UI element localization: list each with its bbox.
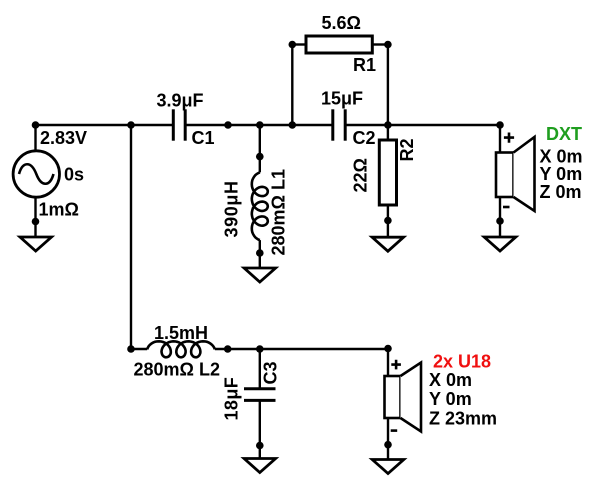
- svg-text:3.9μF: 3.9μF: [157, 91, 204, 111]
- wire L1 bottom lead: [259, 240, 261, 268]
- speaker U18 plus sign: [391, 360, 401, 370]
- svg-text:X 0m: X 0m: [429, 370, 472, 390]
- wire R2 top lead: [387, 125, 389, 140]
- wire bottom rail: L2 to U18: [215, 348, 388, 350]
- speaker U18 body: [385, 376, 401, 418]
- svg-text:1.5mH: 1.5mH: [154, 323, 208, 343]
- ground below C3: [244, 459, 276, 473]
- inductor L1 coil: [252, 172, 268, 240]
- wire R1 left lead: [292, 43, 306, 45]
- resistor R1 body: [306, 36, 372, 53]
- ground below L1: [244, 268, 276, 282]
- svg-text:15μF: 15μF: [321, 89, 363, 109]
- junction dot R1 left: [289, 121, 297, 129]
- ground below U18: [372, 460, 404, 474]
- junction dot left corner: [127, 121, 135, 129]
- voltage source V1 sine wave: [19, 164, 54, 184]
- junction dot bottom-left corner: [127, 345, 135, 353]
- speaker DXT body: [496, 153, 514, 198]
- wire L1 top lead: [259, 125, 261, 172]
- wire top rail: C2 to DXT: [347, 124, 501, 126]
- wire C3 top lead: [259, 349, 261, 389]
- speaker DXT minus sign: [503, 206, 510, 209]
- svg-text:2x U18: 2x U18: [433, 351, 491, 371]
- svg-text:1mΩ: 1mΩ: [39, 200, 79, 220]
- svg-text:Z 23mm: Z 23mm: [429, 408, 497, 428]
- ground below source: [20, 237, 52, 251]
- svg-text:C2: C2: [353, 128, 376, 148]
- junction dot U18 bottom: [384, 441, 392, 449]
- junction dot node after C1: [224, 121, 232, 129]
- junction dot R2 bottom: [384, 217, 392, 225]
- svg-text:Y 0m: Y 0m: [429, 389, 472, 409]
- svg-text:0s: 0s: [64, 164, 84, 184]
- svg-text:5.6Ω: 5.6Ω: [322, 13, 361, 33]
- junction dot R1 left top: [289, 41, 297, 49]
- wire R2 bottom lead: [387, 205, 389, 237]
- capacitor C3 bottom plate: [244, 399, 276, 402]
- resistor R2 body: [379, 140, 396, 205]
- speaker DXT plus sign: [504, 133, 514, 143]
- junction dot DXT top: [496, 121, 504, 129]
- wire U18 bottom lead: [387, 418, 389, 460]
- speaker U18 minus sign: [391, 429, 398, 432]
- wire top rail: source to C1: [36, 124, 174, 126]
- wire bottom rail: corner to L2: [131, 348, 147, 350]
- junction dot C3 tap: [256, 345, 264, 353]
- ground below DXT: [484, 237, 516, 251]
- junction dot source top: [32, 121, 40, 129]
- svg-text:R2: R2: [397, 138, 417, 161]
- svg-text:2.83V: 2.83V: [40, 128, 87, 148]
- junction dot L2 right terminal: [224, 345, 232, 353]
- junction dot R1 right top: [384, 41, 392, 49]
- wire source bottom lead: [34, 197, 36, 237]
- svg-text:Z 0m: Z 0m: [540, 182, 582, 202]
- capacitor C3 top plate: [244, 387, 276, 390]
- capacitor C1 left plate: [172, 109, 175, 140]
- junction dot L1 top terminal: [256, 153, 264, 161]
- wire R1 right vertical: [387, 45, 389, 126]
- svg-text:280mΩ L2: 280mΩ L2: [134, 360, 220, 380]
- junction dot DXT bottom: [496, 217, 504, 225]
- wire source top lead: [34, 125, 36, 151]
- junction dot L1 tap: [256, 121, 264, 129]
- junction dot U18 top: [384, 345, 392, 353]
- junction dot L1 bottom terminal: [256, 249, 264, 257]
- ground below R2: [372, 237, 404, 251]
- svg-text:18μF: 18μF: [222, 377, 242, 421]
- wire top rail: C1 to C2: [186, 124, 332, 126]
- wire R1 right lead: [372, 43, 388, 45]
- svg-text:R1: R1: [353, 55, 376, 75]
- capacitor C2 left plate: [331, 109, 334, 140]
- svg-text:390μH: 390μH: [222, 180, 242, 237]
- junction dot C3 bottom: [256, 442, 264, 450]
- junction dot source bottom: [32, 218, 40, 226]
- wire U18 top lead: [387, 349, 389, 376]
- speaker DXT horn: [514, 137, 535, 211]
- svg-text:C3: C3: [261, 361, 281, 384]
- wire C3 bottom lead: [259, 401, 261, 459]
- voltage source V1 circle: [13, 151, 59, 197]
- wire DXT top lead: [499, 125, 501, 153]
- svg-text:22Ω: 22Ω: [351, 158, 371, 192]
- junction dot R2 node: [384, 121, 392, 129]
- wire left vertical drop to low-pass section: [130, 125, 132, 349]
- capacitor C1 right plate: [184, 109, 187, 140]
- svg-text:DXT: DXT: [546, 124, 582, 144]
- inductor L2 coil: [147, 341, 215, 357]
- svg-text:C1: C1: [192, 128, 215, 148]
- wire DXT bottom lead: [499, 197, 501, 237]
- capacitor C2 right plate: [344, 109, 347, 140]
- svg-text:280mΩ L1: 280mΩ L1: [269, 169, 289, 255]
- speaker U18 horn: [401, 363, 422, 432]
- svg-text:Y 0m: Y 0m: [540, 164, 583, 184]
- wire R1 left vertical: [291, 45, 293, 126]
